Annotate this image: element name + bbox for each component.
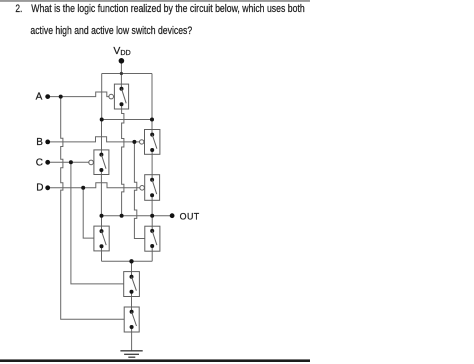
wire input D [48,183,140,188]
node join rail junction [129,259,133,263]
svg-text:D: D [36,183,43,194]
switch S4 active-low gate D [140,175,160,201]
switch S8 active-high gate A [124,307,139,332]
wire switch S1 output (vertical with jogs) [122,104,124,216]
wire gate line from A (vertical with jogs) [61,97,124,320]
node B junction [132,140,136,144]
ground symbol [120,351,142,357]
node input A terminal [45,94,50,99]
switch S1 active-low gate A [109,84,129,109]
node OUT rail middle junction [120,214,124,218]
node VDD terminal [119,58,125,64]
node rail2 left junction [100,118,104,122]
page top border bar [0,0,310,2]
switch S7 active-high gate C [124,272,140,297]
switch S3 active-low gate C [89,150,109,175]
node A junction [59,95,63,99]
node OUT rail right junction [150,214,154,218]
svg-text:What is the logic function rea: What is the logic function realized by t… [31,3,305,15]
svg-text:2.: 2. [15,3,22,15]
wire rail2 to switch S3 top [101,120,103,155]
wire S6 bottom to join rail [151,246,153,261]
wire join rail [102,260,153,262]
wire left supply drop [101,74,103,120]
node OUT rail left junction [100,214,104,218]
svg-text:C: C [36,158,43,169]
wire OUT rail into switch S6 [151,216,153,231]
wire S8 to ground [131,327,133,351]
wire join to switch S7 [131,261,133,276]
wire VDD stem [120,61,122,89]
wire OUT rail into switch S5 [101,216,103,231]
node VDD rail junction [120,72,123,75]
wire right supply drop [151,74,153,120]
page bottom rule bar [0,359,310,362]
wire gate line from B (vertical with jogs) [134,142,144,239]
svg-text:VDD: VDD [113,46,130,57]
switch S5 active-high gate D [94,226,109,251]
node input B terminal [45,140,50,145]
wire supply rail 2 [102,119,152,121]
wire S2 bottom to S4 top [151,150,153,180]
wire input A [48,92,109,97]
svg-text:B: B [36,137,43,148]
wire S3 bottom to OUT rail [100,170,102,216]
svg-text:A: A [36,91,43,102]
wire input C [48,161,89,163]
node rail2 right junction [150,118,154,122]
wire S7 to S8 [131,292,133,312]
wire rail2 into switch S2 top [151,120,153,135]
wire top supply rail [102,73,152,75]
switch S6 active-high gate B [145,226,160,251]
wire S5 bottom to join rail [101,246,103,261]
node D junction [81,186,85,190]
node C junction [69,160,73,164]
wire gate line from D [83,188,94,238]
wire OUT rail [102,215,173,217]
svg-text:OUT: OUT [180,211,200,221]
node OUT terminal [170,213,175,218]
node input C terminal [45,160,50,165]
node input D terminal [45,185,50,190]
wire gate line from C [71,162,124,284]
wire input B [48,137,140,142]
wire S4 bottom to OUT rail [151,195,153,216]
svg-text:active high and active low swi: active high and active low switch device… [30,25,192,37]
switch S2 active-low gate B [140,130,160,155]
